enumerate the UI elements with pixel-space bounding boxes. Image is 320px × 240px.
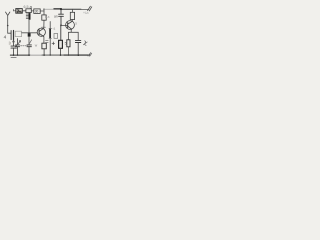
antenna: [6, 12, 10, 25]
svg-text:an: an: [54, 15, 58, 19]
node: [43, 9, 44, 10]
svg-text:b.a: b.a: [45, 15, 50, 19]
top rail wire: [44, 8, 54, 10]
wire (base of Q1): [22, 32, 38, 34]
wire (output branch): [77, 32, 79, 40]
capacitor C8 (output): [75, 40, 80, 42]
small box: [54, 34, 58, 39]
rail end terminal: [88, 53, 92, 57]
resistor R8: [67, 40, 70, 47]
wire (C2 to rail): [13, 48, 15, 55]
wire (R8 to rail): [67, 47, 69, 55]
svg-text:30: 30: [35, 10, 39, 14]
wire (Q1 collector up): [43, 20, 45, 28]
ground rail: [42, 54, 64, 56]
wire (Q1 emitter down): [43, 37, 45, 44]
wire: [31, 10, 34, 12]
electrolytic C7 (dark outlined box): [59, 40, 63, 48]
wire (R5 to rail): [43, 49, 45, 55]
node: [50, 54, 51, 55]
node A: [7, 25, 9, 27]
resistor R2: [26, 9, 31, 13]
capacitor C3 variable: [17, 39, 19, 45]
svg-text:f.: f.: [54, 27, 56, 31]
wire: [81, 8, 89, 10]
svg-text:5: 5: [75, 21, 77, 25]
svg-text:w: w: [35, 44, 38, 48]
wire: [28, 37, 30, 45]
variable capacitor C1 plates: [10, 31, 12, 40]
dashed gang link: [21, 45, 28, 47]
svg-text:+Ub: +Ub: [83, 11, 89, 15]
resistor R4: [42, 15, 46, 20]
node: [43, 54, 45, 56]
wire (Q2 emitter path): [68, 30, 78, 40]
svg-text:5: 5: [65, 41, 67, 45]
trimmer arrow head: [13, 40, 15, 42]
node: [17, 54, 18, 55]
electrolytic C6 (thick dark segment): [49, 22, 51, 56]
resistor R7: [70, 12, 74, 19]
ground rail dark: [64, 54, 90, 56]
wire (Q2 collector): [71, 20, 73, 22]
wire (down-lead): [8, 26, 11, 34]
output label squiggle: [83, 41, 87, 46]
trimmer arrow C3: [16, 41, 21, 47]
ground rail faint: [30, 54, 42, 56]
coil L1 box: [15, 31, 21, 36]
wire: [40, 10, 44, 12]
ground bar: [11, 56, 16, 58]
svg-text:4: 4: [4, 35, 7, 40]
node: [68, 55, 69, 56]
node: [60, 54, 62, 56]
ticks: [46, 41, 49, 43]
capacitor C2: [11, 46, 16, 48]
ticks: [49, 28, 52, 38]
plus mark: [52, 42, 55, 45]
resistor R5: [42, 43, 46, 49]
node (Q2 base): [60, 24, 62, 26]
transistor Q2: [66, 21, 75, 30]
inductor L2 core dashes: [26, 14, 28, 19]
wire: [61, 24, 68, 26]
node (coupling junction): [60, 8, 62, 10]
transistor Q1: [37, 28, 45, 36]
collector tick: [42, 26, 46, 28]
capacitor C4 variable: [27, 45, 31, 47]
wire (dark segment): [54, 8, 61, 10]
svg-text:6.5: 6.5: [24, 5, 29, 9]
wire (C1 to C2): [13, 40, 15, 46]
core block: [28, 33, 31, 37]
resistor R3 value 30: [34, 9, 40, 14]
capacitor C5 (coupling): [60, 9, 62, 14]
arrow C4: [29, 40, 31, 44]
wire (Q2 base junction down): [60, 26, 62, 40]
ground rail: [10, 54, 30, 56]
wire (L2 down): [28, 20, 30, 33]
stray marks: [9, 42, 10, 45]
node: [28, 54, 30, 56]
wire: [22, 10, 26, 12]
wire: [61, 8, 81, 10]
resistor R1 (dark box): [16, 9, 22, 14]
wire stub: [13, 9, 16, 11]
wire (R4 to rail): [43, 9, 45, 15]
node (base junction): [28, 32, 30, 34]
node: [77, 54, 79, 56]
wire (R7 to rail): [71, 9, 73, 12]
node: [13, 54, 15, 56]
wire: [60, 48, 62, 55]
inductor L2 winding (dark): [29, 13, 31, 20]
node circle: [30, 7, 32, 9]
supply terminal slashes: [88, 6, 92, 11]
wire: [77, 43, 79, 56]
